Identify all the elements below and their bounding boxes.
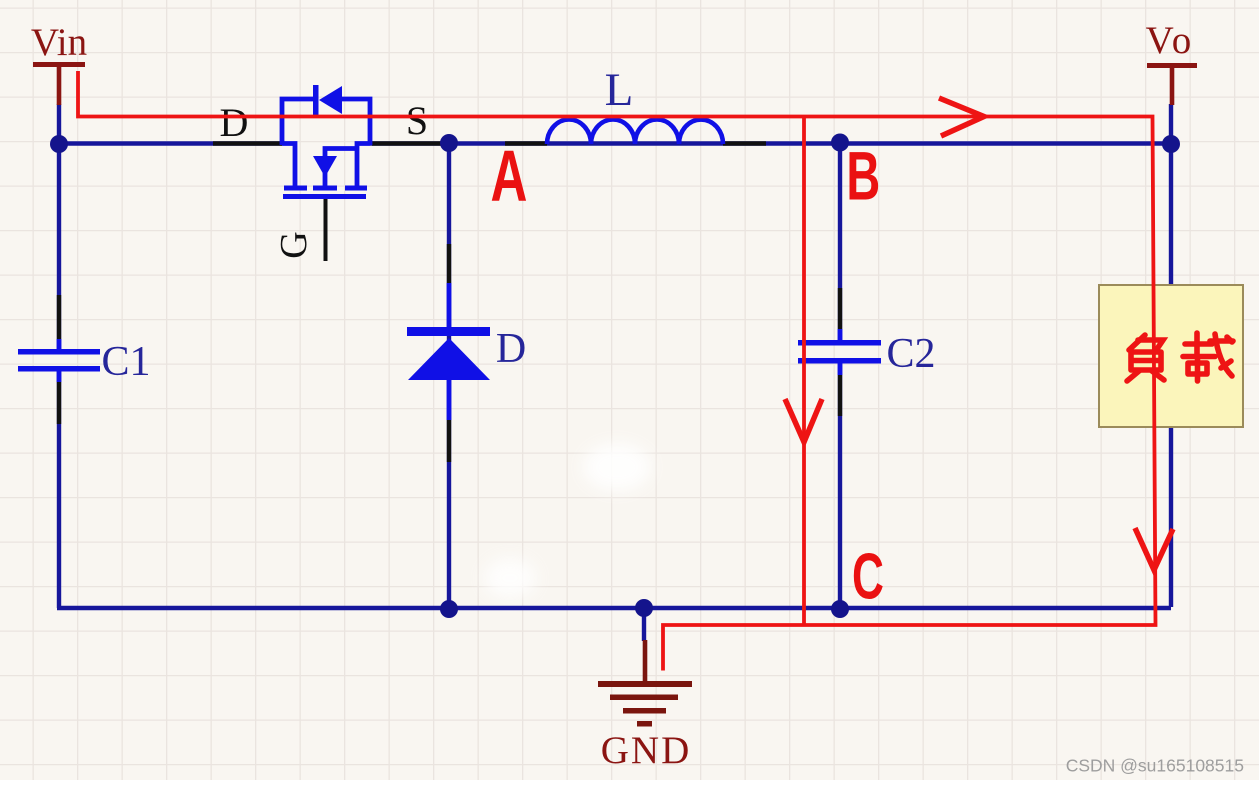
svg-text:Vo: Vo xyxy=(1146,19,1195,62)
svg-text:S: S xyxy=(406,98,428,143)
pin right of inductor L (black) xyxy=(723,141,766,145)
junction node at Vin rail xyxy=(50,135,68,153)
MOSFET pin label D xyxy=(220,100,249,145)
junction node A xyxy=(440,134,458,152)
pins of capacitor C1 (black) xyxy=(57,295,61,424)
capacitor C2 label xyxy=(886,331,935,377)
node label C xyxy=(852,540,884,613)
wire right vertical (Vo down through load to bottom) xyxy=(1169,104,1173,607)
red current branch at node B column xyxy=(802,117,806,626)
wire ground stub xyxy=(642,608,646,641)
pin G of MOSFET (black) xyxy=(324,198,328,261)
inductor L coil xyxy=(547,120,723,145)
current arrow right (top) xyxy=(939,98,984,136)
current arrow down (middle) xyxy=(785,399,822,442)
wire top rail left (Vin node to MOSFET D pin) xyxy=(57,141,282,145)
wire bottom rail xyxy=(57,606,1171,610)
svg-text:C: C xyxy=(852,540,884,613)
load text 载 (drawn strokes) xyxy=(1183,333,1233,381)
MOSFET pin label G (rotated) xyxy=(273,231,315,258)
inductor label L xyxy=(605,64,634,116)
svg-text:Vin: Vin xyxy=(31,21,87,64)
pins of diode D (black) xyxy=(447,244,451,462)
junction node C xyxy=(831,600,849,618)
svg-text:G: G xyxy=(273,231,315,258)
node label A xyxy=(491,136,528,217)
wire node B vertical (down through C2 to bottom rail) xyxy=(838,143,842,609)
wire left vertical (Vin rail down to bottom) xyxy=(57,104,61,608)
svg-text:CSDN @su165108515: CSDN @su165108515 xyxy=(1066,756,1244,776)
current arrow down (right) xyxy=(1135,528,1173,570)
pins of capacitor C2 (black) xyxy=(838,288,842,416)
svg-text:C2: C2 xyxy=(886,331,935,377)
junction node bottom of diode xyxy=(440,600,458,618)
MOSFET pin label S xyxy=(406,98,428,143)
transistor Q1 PMOS body-diode loop xyxy=(282,85,370,145)
junction node at Vo rail xyxy=(1162,135,1180,153)
node label B xyxy=(846,138,880,215)
transistor Q1 channel structure xyxy=(282,144,370,200)
wire top rail right (MOSFET S to Vo node) xyxy=(370,141,1171,145)
diode D (freewheeling) xyxy=(407,283,490,420)
ground GND symbol xyxy=(598,640,692,772)
power port Vin xyxy=(31,21,87,105)
white smudge blob 1 xyxy=(583,443,651,491)
svg-text:D: D xyxy=(220,100,249,145)
capacitor C2 xyxy=(798,329,881,375)
svg-text:GND: GND xyxy=(601,729,692,772)
svg-text:L: L xyxy=(605,64,634,116)
capacitor C1 label xyxy=(101,339,150,385)
watermark xyxy=(1066,756,1244,776)
svg-text:C1: C1 xyxy=(101,339,150,385)
white smudge blob 2 xyxy=(484,558,536,598)
svg-text:B: B xyxy=(846,138,880,215)
load text 负 (drawn strokes) xyxy=(1127,335,1164,381)
pin left of inductor L (black) xyxy=(505,141,547,145)
wire node A vertical (down to diode and bottom rail) xyxy=(447,143,451,608)
svg-text:A: A xyxy=(491,136,528,217)
pin D of MOSFET (black) xyxy=(213,141,282,145)
capacitor C1 xyxy=(18,339,100,382)
red current path main loop xyxy=(78,71,1156,671)
load box (负载) xyxy=(1099,285,1243,427)
junction node B xyxy=(831,134,849,152)
power port Vo xyxy=(1146,19,1197,105)
svg-text:D: D xyxy=(496,326,526,372)
pin S of MOSFET (black) xyxy=(372,141,443,145)
junction node bottom GND xyxy=(635,599,653,617)
diode label D xyxy=(496,326,526,372)
